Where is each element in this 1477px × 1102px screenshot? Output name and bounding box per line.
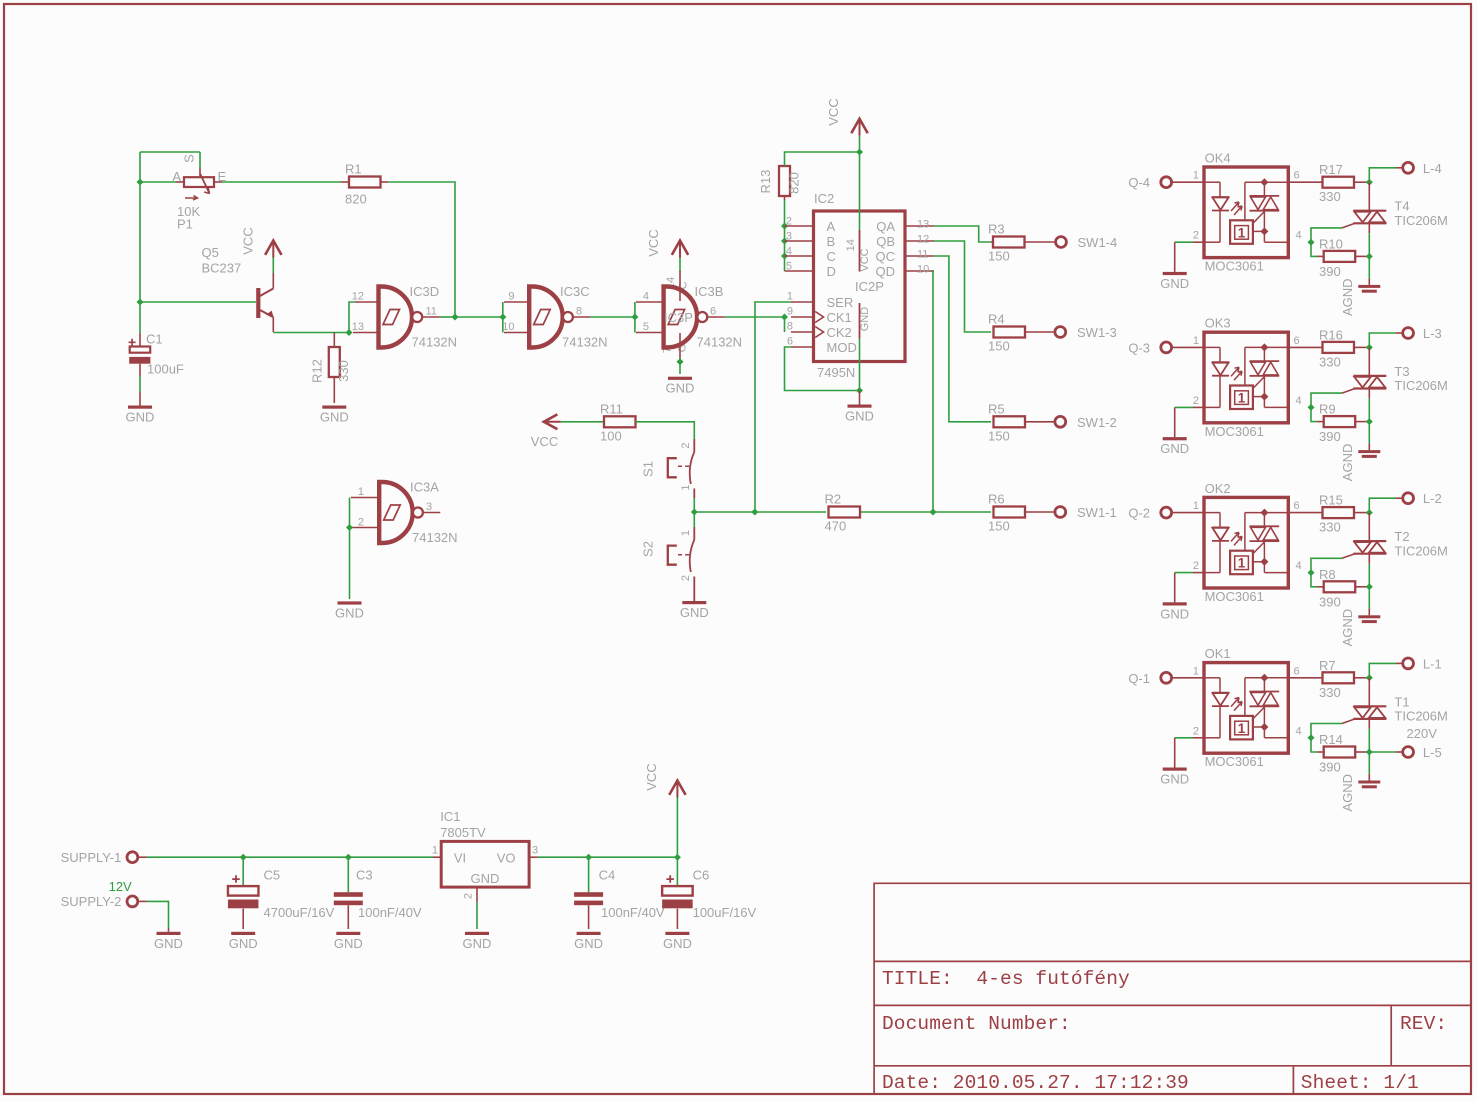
svg-text:REV:: REV: [1400, 1013, 1447, 1035]
svg-text:S1: S1 [641, 461, 656, 477]
wire row 182 [140, 181, 176, 183]
capacitor C4 100nF/40V [588, 857, 590, 892]
svg-text:2: 2 [786, 216, 792, 228]
svg-text:C6: C6 [693, 868, 710, 883]
svg-text:6: 6 [1294, 335, 1300, 347]
svg-text:L-5: L-5 [1423, 745, 1442, 760]
resistor R4 150 [994, 327, 1026, 338]
svg-text:SUPPLY-1: SUPPLY-1 [61, 850, 122, 865]
pad SW1-4 [1056, 237, 1067, 248]
svg-text:VCC: VCC [644, 763, 659, 790]
svg-text:GND: GND [1160, 276, 1189, 291]
triac T1 TIC206M [1368, 678, 1370, 707]
pad Q-4 [1161, 177, 1172, 188]
svg-text:4: 4 [1296, 395, 1302, 407]
svg-text:330: 330 [1319, 685, 1341, 700]
svg-text:390: 390 [1319, 429, 1341, 444]
svg-text:12V: 12V [109, 879, 132, 894]
svg-text:BC237: BC237 [202, 261, 242, 276]
wire IC3C input tie [502, 302, 504, 333]
svg-text:GND: GND [229, 936, 258, 951]
wire to IC3B [590, 316, 635, 318]
node junction C [781, 253, 788, 260]
svg-text:12: 12 [352, 291, 364, 303]
svg-text:E: E [218, 169, 227, 184]
resistor R7 330 [1288, 677, 1322, 679]
IC2 7495N shift register [785, 225, 814, 227]
pad SW1-2 [1055, 416, 1066, 427]
ground OK4 pin2 [1174, 242, 1176, 272]
svg-text:IC2P: IC2P [855, 279, 884, 294]
svg-text:Q-1: Q-1 [1128, 671, 1150, 686]
power VCC R11 (left arrow) [544, 414, 558, 429]
node junction R330 out [1366, 179, 1373, 186]
node junction gate gnd [677, 358, 684, 365]
svg-text:GND: GND [463, 936, 492, 951]
svg-text:74132N: 74132N [412, 335, 458, 350]
svg-text:L-1: L-1 [1423, 656, 1442, 671]
wire QC [934, 256, 991, 422]
svg-text:TIC206M: TIC206M [1394, 378, 1447, 393]
capacitor C6 100uF/16V [676, 857, 678, 886]
svg-text:OK2: OK2 [1205, 481, 1231, 496]
svg-text:IC3A: IC3A [410, 480, 439, 495]
NAND gate IC3D 74132N [355, 301, 378, 303]
resistor R3 150 [991, 241, 993, 243]
svg-text:D: D [827, 264, 836, 279]
svg-text:390: 390 [1319, 760, 1341, 775]
svg-text:R1: R1 [345, 162, 362, 177]
node junction R330 out [1366, 674, 1373, 681]
svg-text:74132N: 74132N [412, 530, 458, 545]
wire triac gate [1311, 724, 1342, 738]
svg-text:13: 13 [352, 321, 364, 333]
svg-text:B: B [827, 234, 836, 249]
svg-text:74132N: 74132N [562, 335, 608, 350]
resistor R2 470 [829, 507, 861, 518]
svg-text:VCC: VCC [241, 227, 256, 254]
pad SW1-1 [1055, 507, 1066, 518]
svg-text:C: C [827, 249, 836, 264]
wire R13 top to VCC [785, 152, 860, 166]
svg-text:VCC: VCC [531, 434, 558, 449]
svg-text:10: 10 [917, 264, 929, 276]
svg-text:1: 1 [1238, 391, 1246, 406]
svg-text:MOC3061: MOC3061 [1205, 424, 1264, 439]
ground C4 [577, 932, 601, 935]
svg-text:1: 1 [1238, 721, 1246, 736]
svg-text:8: 8 [787, 321, 793, 333]
ground IC1 [465, 932, 489, 935]
svg-text:TIC206M: TIC206M [1394, 709, 1447, 724]
svg-text:L-2: L-2 [1423, 491, 1442, 506]
svg-text:GND: GND [320, 410, 349, 425]
svg-text:R12: R12 [310, 359, 325, 383]
ground AGND T1 [1368, 752, 1370, 774]
resistor R1 820 [341, 181, 349, 183]
wire VCC rail out [529, 856, 538, 858]
pad Q-1 [1161, 672, 1172, 683]
svg-text:GND: GND [471, 871, 500, 886]
NAND gate IC3C 74132N [504, 301, 529, 303]
svg-text:GND: GND [334, 936, 363, 951]
svg-text:1: 1 [680, 530, 692, 536]
svg-text:9: 9 [508, 291, 514, 303]
node junction R390 out [1366, 749, 1373, 756]
wire pot S top [140, 151, 200, 153]
node junction pin4 [1308, 569, 1315, 576]
svg-text:S2: S2 [641, 541, 656, 557]
pad SW1-3 [1055, 327, 1066, 338]
svg-text:QC: QC [876, 249, 896, 264]
node junction pin4 [1308, 734, 1315, 741]
svg-text:1: 1 [1193, 665, 1199, 677]
svg-text:150: 150 [988, 428, 1010, 443]
svg-text:C5: C5 [264, 868, 281, 883]
node junction pin13 [346, 329, 353, 336]
svg-text:R9: R9 [1319, 402, 1336, 417]
ground S2 [682, 601, 706, 604]
pad Q-2 [1161, 507, 1172, 518]
svg-text:VCC: VCC [826, 98, 841, 125]
svg-text:GND: GND [663, 936, 692, 951]
svg-text:R11: R11 [600, 401, 623, 416]
ground IC3A [338, 601, 362, 604]
node junction SER row [751, 509, 758, 516]
node junction IC3C in [499, 314, 506, 321]
node junction IC3B in [631, 314, 638, 321]
node junction base row [139, 182, 141, 302]
ground C5 [231, 932, 255, 935]
wire MOD to gnd [785, 347, 860, 391]
svg-text:100nF/40V: 100nF/40V [358, 905, 422, 920]
pad SUPPLY-1 [127, 852, 138, 863]
wire ABCD column [784, 200, 786, 271]
node junction QD row [930, 509, 937, 516]
svg-text:100uF: 100uF [147, 362, 184, 377]
svg-text:470: 470 [825, 519, 847, 534]
svg-text:R8: R8 [1319, 567, 1336, 582]
svg-text:1: 1 [680, 484, 692, 490]
wire supply rail [138, 856, 147, 858]
wire VCC to R11 [561, 421, 604, 423]
svg-text:820: 820 [787, 172, 802, 194]
resistor R9 390 [1311, 407, 1317, 421]
svg-text:150: 150 [988, 339, 1010, 354]
svg-text:1: 1 [1238, 225, 1246, 240]
svg-text:Q-3: Q-3 [1128, 340, 1150, 355]
ground AGND T3 [1368, 422, 1370, 444]
wire gate D out [440, 316, 455, 318]
wire pin12 tie [349, 302, 355, 333]
pad L-1 [1369, 663, 1396, 677]
svg-text:Q5: Q5 [202, 245, 219, 260]
svg-text:2: 2 [680, 442, 692, 448]
capacitor C5 4700uF/16V [242, 857, 244, 886]
svg-text:T2: T2 [1394, 529, 1409, 544]
svg-text:10: 10 [502, 321, 514, 333]
svg-text:11: 11 [917, 249, 928, 261]
ground IC3P [679, 358, 681, 374]
svg-text:R5: R5 [988, 401, 1005, 416]
svg-text:OK4: OK4 [1205, 151, 1231, 166]
node junction C6 [674, 854, 681, 861]
node junction pin4 [1308, 239, 1315, 246]
svg-text:Q-4: Q-4 [1128, 175, 1150, 190]
svg-text:13: 13 [917, 219, 929, 231]
svg-text:R6: R6 [988, 492, 1005, 507]
svg-text:T4: T4 [1394, 199, 1409, 214]
svg-text:R7: R7 [1319, 658, 1336, 673]
svg-text:390: 390 [1319, 264, 1341, 279]
svg-text:R17: R17 [1319, 162, 1343, 177]
switch S1 [693, 439, 695, 452]
ground AGND T2 [1368, 587, 1370, 609]
power VCC supply [676, 798, 678, 858]
pad L-3 [1369, 333, 1396, 347]
svg-text:GND: GND [845, 409, 874, 424]
svg-text:4: 4 [1296, 230, 1302, 242]
node junction R390 out [1366, 418, 1373, 425]
wire C1 drop [139, 302, 141, 333]
pad SUPPLY-2 [127, 896, 138, 907]
svg-text:TIC206M: TIC206M [1394, 213, 1447, 228]
capacitor C3 100nF/40V [347, 857, 349, 892]
svg-text:AGND: AGND [1340, 774, 1355, 812]
pad Q-3 [1161, 342, 1172, 353]
svg-text:11: 11 [426, 306, 437, 318]
svg-text:MOC3061: MOC3061 [1205, 754, 1264, 769]
svg-text:IC3C: IC3C [560, 284, 590, 299]
node junction IC2 gnd [856, 387, 863, 394]
resistor R11 100 [604, 416, 636, 427]
wire triac gate [1311, 228, 1342, 242]
svg-text:IC3P: IC3P [664, 310, 693, 325]
ground AGND T4 [1368, 256, 1370, 278]
svg-text:390: 390 [1319, 594, 1341, 609]
svg-text:R16: R16 [1319, 327, 1343, 342]
svg-text:2: 2 [463, 893, 475, 899]
svg-text:6: 6 [1294, 665, 1300, 677]
svg-text:330: 330 [1319, 520, 1341, 535]
svg-text:2: 2 [1193, 395, 1199, 407]
svg-text:QD: QD [876, 264, 896, 279]
svg-text:IC1: IC1 [440, 809, 460, 824]
svg-text:R14: R14 [1319, 732, 1343, 747]
optocoupler OK2 MOC3061 [1172, 512, 1204, 514]
svg-text:R2: R2 [825, 492, 842, 507]
svg-text:1: 1 [1193, 500, 1199, 512]
node junction IC3A pin2 [346, 524, 353, 531]
voltage regulator IC1 7805TV [433, 856, 441, 858]
potentiometer P1 [199, 168, 201, 177]
svg-text:MOD: MOD [827, 340, 857, 355]
svg-text:GND: GND [1160, 772, 1189, 787]
svg-text:R4: R4 [988, 312, 1005, 327]
ground OK1 pin2 [1174, 738, 1176, 768]
svg-text:4700uF/16V: 4700uF/16V [264, 905, 335, 920]
wire triac gate [1311, 393, 1342, 407]
svg-text:1: 1 [1193, 170, 1199, 182]
svg-text:6: 6 [710, 306, 716, 318]
svg-text:L-3: L-3 [1423, 326, 1442, 341]
wire S1 to node [693, 498, 695, 512]
node junction VCC2 [856, 149, 863, 156]
svg-text:R15: R15 [1319, 493, 1343, 508]
svg-text:A: A [827, 219, 836, 234]
svg-text:6: 6 [787, 336, 793, 348]
wire IC3B out to CK1 [725, 316, 785, 318]
svg-text:100nF/40V: 100nF/40V [601, 905, 665, 920]
pad L-4 [1369, 168, 1396, 182]
svg-text:1: 1 [1193, 335, 1199, 347]
wire IC3B input tie [634, 302, 636, 333]
svg-text:2: 2 [1193, 560, 1199, 572]
node junction 455 [452, 314, 459, 321]
svg-text:820: 820 [345, 192, 367, 207]
ground R12 [322, 406, 346, 409]
svg-text:SUPPLY-2: SUPPLY-2 [61, 894, 122, 909]
svg-text:330: 330 [1319, 354, 1341, 369]
node junction CK1 [781, 314, 788, 321]
NAND gate IC3A 74132N [349, 498, 351, 528]
svg-text:Sheet: 1/1: Sheet: 1/1 [1301, 1072, 1419, 1094]
svg-text:GND: GND [574, 936, 603, 951]
wire SER down [755, 302, 791, 512]
node junction B [781, 238, 788, 245]
wire SW row [694, 511, 826, 513]
node junction C4 [585, 854, 592, 861]
title block frame [874, 883, 1471, 1093]
svg-text:AGND: AGND [1340, 609, 1355, 647]
svg-text:330: 330 [1319, 189, 1341, 204]
resistor R17 330 [1288, 181, 1322, 183]
node junction R330 out [1366, 509, 1373, 516]
svg-text:100: 100 [600, 428, 622, 443]
svg-text:Document Number:: Document Number: [882, 1013, 1071, 1035]
svg-text:AGND: AGND [1340, 278, 1355, 316]
svg-text:GND: GND [335, 605, 364, 620]
wire VCC into IC2 [859, 136, 861, 230]
resistor R13 820 [784, 196, 786, 200]
svg-text:OK1: OK1 [1205, 646, 1231, 661]
svg-text:T1: T1 [1394, 694, 1409, 709]
svg-text:VCC: VCC [646, 229, 661, 256]
svg-text:4: 4 [1296, 725, 1302, 737]
svg-text:OK3: OK3 [1205, 316, 1231, 331]
svg-text:CK2: CK2 [827, 325, 852, 340]
svg-text:3: 3 [426, 501, 432, 513]
wire triac gate [1311, 558, 1342, 572]
svg-text:R3: R3 [988, 222, 1005, 237]
svg-text:4: 4 [1296, 560, 1302, 572]
svg-text:IC3B: IC3B [695, 284, 724, 299]
resistor R16 330 [1288, 346, 1322, 348]
ground C3 [336, 932, 360, 935]
svg-text:IC2: IC2 [814, 191, 834, 206]
resistor R14 390 [1311, 738, 1317, 752]
ground IC2 [859, 391, 861, 405]
node junction R390 out [1366, 583, 1373, 590]
node junction C3 [345, 854, 352, 861]
NAND gate IC3B 74132N [636, 301, 663, 303]
wire QB [934, 241, 991, 332]
svg-text:R10: R10 [1319, 236, 1343, 251]
svg-text:2: 2 [1193, 230, 1199, 242]
svg-text:VCC: VCC [859, 248, 871, 271]
resistor R8 390 [1311, 573, 1317, 587]
svg-text:1: 1 [358, 486, 364, 498]
optocoupler OK3 MOC3061 [1172, 346, 1204, 348]
svg-text:GND: GND [154, 936, 183, 951]
svg-text:8: 8 [576, 306, 582, 318]
triac T4 TIC206M [1368, 182, 1370, 211]
node junction R390 out [1366, 253, 1373, 260]
node junction A [781, 223, 788, 230]
resistor R6 150 [994, 507, 1026, 518]
wire QD [933, 271, 934, 512]
svg-text:L-4: L-4 [1423, 161, 1442, 176]
svg-text:6: 6 [1294, 500, 1300, 512]
svg-text:S: S [182, 154, 197, 163]
svg-text:2: 2 [680, 575, 692, 581]
node junction pin4 [1308, 404, 1315, 411]
svg-text:9: 9 [787, 306, 793, 318]
svg-text:1: 1 [432, 845, 438, 857]
svg-text:VO: VO [497, 851, 516, 866]
svg-text:SW1-3: SW1-3 [1077, 325, 1117, 340]
node junction C5 [240, 854, 247, 861]
svg-text:150: 150 [988, 519, 1010, 534]
svg-text:1: 1 [787, 291, 793, 303]
svg-text:74132N: 74132N [697, 335, 743, 350]
svg-text:6: 6 [1294, 170, 1300, 182]
svg-text:GND: GND [1160, 441, 1189, 456]
resistor R10 390 [1311, 242, 1317, 256]
svg-text:QA: QA [876, 219, 895, 234]
svg-text:AGND: AGND [1340, 444, 1355, 482]
optocoupler OK1 MOC3061 [1172, 677, 1204, 679]
ground C6 [665, 932, 689, 935]
svg-text:T3: T3 [1394, 364, 1409, 379]
svg-text:220V: 220V [1407, 726, 1438, 741]
svg-text:TITLE: 4-es futófény: TITLE: 4-es futófény [882, 968, 1130, 990]
ground C1 [139, 392, 141, 406]
wire base row [140, 301, 256, 303]
svg-text:100uF/16V: 100uF/16V [693, 905, 757, 920]
triac T2 TIC206M [1368, 513, 1370, 542]
wire QA [934, 226, 991, 242]
svg-text:A: A [172, 169, 181, 184]
svg-text:SW1-1: SW1-1 [1077, 505, 1117, 520]
svg-text:SER: SER [827, 295, 854, 310]
pad L-2 [1369, 498, 1396, 512]
svg-text:3: 3 [786, 231, 792, 243]
ground SUPPLY-2 [168, 928, 170, 932]
power VCC IC3P [679, 257, 681, 272]
svg-text:VI: VI [454, 851, 466, 866]
svg-text:12: 12 [917, 234, 929, 246]
resistor R12 330 [333, 333, 335, 348]
svg-text:5: 5 [786, 261, 792, 273]
svg-text:P1: P1 [177, 217, 193, 232]
triac T3 TIC206M [1368, 347, 1370, 376]
svg-text:5: 5 [643, 321, 649, 333]
node junction SW row [691, 509, 698, 516]
svg-text:3: 3 [532, 845, 538, 857]
svg-text:C1: C1 [146, 332, 163, 347]
svg-text:GND: GND [666, 381, 695, 396]
